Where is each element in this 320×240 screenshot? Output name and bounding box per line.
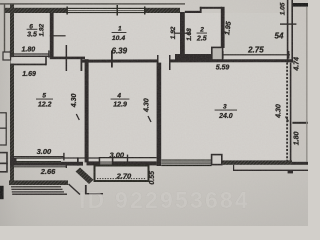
room3 right wall solid outer bbox=[290, 63, 292, 161]
2.75 tick left bbox=[222, 51, 224, 59]
door gap to room3 bbox=[159, 59, 170, 63]
dim line 2.66 bbox=[10, 166, 66, 167]
lower parallel line bbox=[233, 170, 308, 171]
dim arrow 4.30 room 3 bbox=[286, 117, 289, 122]
chamfer diagonal hatched band bbox=[76, 168, 94, 185]
loggia bottom-left bbox=[9, 168, 103, 195]
white gap x83-86.5, then band under room4 bbox=[87, 161, 157, 165]
left outer line bbox=[4, 4, 5, 53]
divider room4|room3 bbox=[157, 63, 162, 166]
wall room6|room1 bbox=[50, 13, 54, 59]
lower line connector bbox=[233, 165, 234, 170]
left edge box B bbox=[0, 113, 6, 128]
top wall hatched part bbox=[5, 8, 67, 13]
dim tick 3.00 room4 bbox=[127, 155, 128, 162]
bottom wall extension to edge bbox=[292, 162, 308, 165]
dim tick line 1.92 hall bbox=[174, 33, 191, 34]
room6 threshold box: top border bbox=[11, 56, 50, 58]
balcony door divider left bbox=[99, 157, 101, 166]
lower line bump bbox=[288, 171, 293, 173]
dim arrow 4.30 room 5 bbox=[76, 114, 79, 120]
band room5 right part bbox=[61, 162, 83, 166]
dim tick line 1.92 room6 bbox=[50, 35, 66, 36]
room5 window bbox=[17, 158, 62, 166]
2.70 balcony box bbox=[95, 166, 149, 182]
door frame right room3 bbox=[169, 55, 171, 70]
left edge box D bbox=[0, 153, 7, 164]
right edge faint line bbox=[306, 7, 307, 162]
threshold bottom border (1.69 line) bbox=[11, 64, 47, 66]
room 5 underline bbox=[36, 98, 53, 101]
left edge box C bbox=[0, 128, 6, 145]
room interior slightly lighter bbox=[14, 13, 286, 161]
threshold step vertical bbox=[45, 57, 47, 65]
left shaft box A bbox=[3, 52, 11, 60]
black bar bottom left bbox=[0, 186, 4, 199]
room 2 underline bbox=[197, 32, 207, 35]
shaft box bbox=[212, 47, 223, 60]
room3 bottom hatch wall bbox=[222, 160, 292, 164]
room2 top step vertical bbox=[200, 7, 202, 13]
sill thin line room5 right bbox=[61, 157, 99, 158]
threshold interior bbox=[11, 57, 50, 64]
door frame mark room4 bbox=[111, 51, 113, 68]
tick y24 bbox=[280, 23, 296, 24]
neighbor line right bbox=[292, 122, 308, 124]
2.75 dim line bbox=[222, 54, 290, 55]
room2 right wall bbox=[221, 7, 225, 48]
room3 right wall dashed inner bbox=[286, 63, 288, 161]
sill thin line room4 bbox=[99, 157, 157, 158]
top outer line bbox=[0, 3, 185, 4]
room 1 underline bbox=[112, 31, 127, 34]
left edge box E bbox=[0, 163, 7, 171]
room2 bottom wall bbox=[175, 54, 212, 60]
balcony door divider right bbox=[112, 157, 114, 166]
2.75 tick right bbox=[288, 51, 290, 59]
room 6 underline bbox=[27, 28, 38, 31]
bottom band room5: stub bbox=[10, 158, 17, 166]
door frame left room3 bbox=[157, 55, 159, 65]
window room1 top bbox=[66, 5, 180, 16]
tick x67 bbox=[66, 45, 68, 71]
balcony door threshold bbox=[100, 161, 112, 165]
room 3 underline bbox=[215, 109, 237, 112]
tick x81 stub bbox=[81, 57, 83, 71]
dim tick 1.80 right bbox=[48, 50, 49, 57]
wall A hall/room5 bbox=[50, 57, 85, 60]
room2 top wall high part bbox=[200, 7, 222, 9]
dim tick 2.66 right bbox=[66, 162, 67, 168]
room 4 underline bbox=[111, 98, 130, 101]
dim line 3.00 room5 bbox=[11, 156, 65, 157]
watermark bbox=[79, 187, 250, 213]
window post box bbox=[212, 155, 222, 165]
band divider x77 bbox=[77, 157, 79, 165]
dim arrow 4.30 room 4 bbox=[148, 116, 151, 122]
black bar top right bbox=[293, 3, 308, 7]
far right wall line outer bbox=[291, 0, 293, 63]
dim line 1.80 bbox=[10, 53, 49, 54]
far right wall line inner bbox=[287, 0, 289, 63]
dim tick 1.80 left bbox=[10, 50, 11, 57]
room2 top wall low part bbox=[185, 11, 201, 13]
room2 left wall bbox=[180, 12, 185, 59]
left main wall hatched bbox=[10, 5, 14, 181]
wall B top of rooms 4/3 bbox=[82, 59, 292, 62]
dim tick 3.00 right bbox=[63, 153, 64, 161]
room3 window bottom bbox=[161, 160, 211, 167]
divider room5|room4 bbox=[85, 59, 89, 162]
